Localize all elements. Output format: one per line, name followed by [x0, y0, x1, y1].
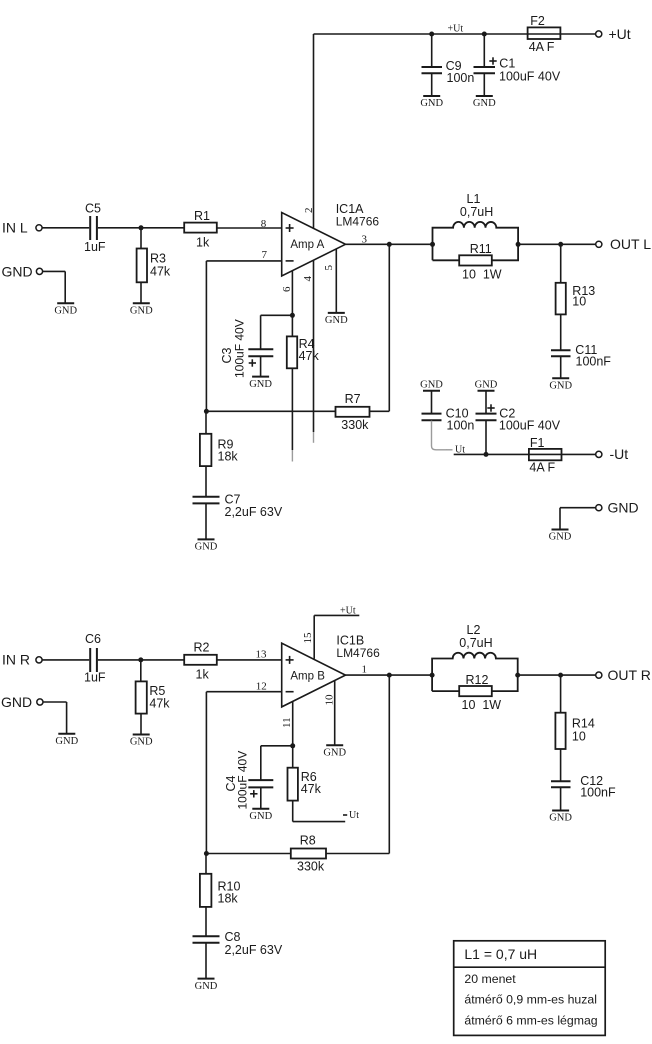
- wire IN L to C5: [42, 227, 89, 229]
- resistor R3: [137, 249, 171, 283]
- svg-text:6: 6: [281, 286, 293, 292]
- node B output feedback junction: [387, 673, 392, 678]
- wire R6 lower lead: [292, 801, 294, 822]
- capacitor C11: [551, 343, 611, 369]
- wire pin 6 down to R4: [291, 266, 293, 336]
- svg-text:10 1W: 10 1W: [462, 267, 502, 281]
- wire C3 to ground: [260, 357, 262, 377]
- node A output feedback junction: [387, 242, 392, 247]
- wire C4 to ground: [260, 788, 262, 809]
- wire C9 to ground: [431, 74, 433, 96]
- wire pin 2 from +Ut rail: [313, 34, 315, 228]
- svg-text:47k: 47k: [301, 782, 322, 796]
- svg-text:330k: 330k: [297, 860, 325, 874]
- node feedback node B: [204, 851, 209, 856]
- svg-text:R3: R3: [150, 252, 166, 266]
- wire GND right horizontal: [560, 507, 596, 509]
- wire -Ut rail right: [562, 453, 596, 455]
- svg-text:47k: 47k: [149, 697, 170, 711]
- wire R5 to ground: [140, 714, 142, 735]
- ground under R3: [130, 303, 153, 316]
- wire C3 top lead: [260, 315, 262, 349]
- svg-text:4A F: 4A F: [529, 461, 555, 475]
- capacitor C9: [422, 59, 475, 85]
- capacitor C4 (electrolytic): [224, 751, 273, 810]
- svg-text:100n: 100n: [447, 419, 475, 433]
- node rail C9 tap: [429, 32, 434, 37]
- ground above C2: [475, 380, 498, 391]
- ground under C7: [195, 539, 218, 552]
- wire node to R10: [205, 854, 207, 874]
- node B input junction: [138, 657, 143, 662]
- inductor L2 with parallel box: [432, 623, 518, 691]
- op-amp U1A triangle: [282, 213, 346, 277]
- svg-text:10: 10: [572, 730, 586, 744]
- wire R10 to C8: [205, 907, 207, 936]
- wire pin 11 down to R6: [292, 697, 294, 768]
- wire ground to C10: [431, 391, 433, 413]
- svg-text:C6: C6: [85, 632, 101, 646]
- capacitor C6: [84, 632, 106, 685]
- wire IN R to C6: [42, 659, 89, 661]
- node A input junction: [139, 225, 144, 230]
- svg-text:47k: 47k: [150, 265, 171, 279]
- svg-text:R8: R8: [300, 834, 316, 848]
- wire feedback riser B: [388, 675, 390, 853]
- svg-text:C5: C5: [85, 202, 101, 216]
- terminal IN R: [36, 657, 42, 663]
- wire R13 to C11: [560, 314, 562, 349]
- resistor R10: [200, 874, 241, 907]
- capacitor C1 (electrolytic): [474, 57, 561, 84]
- svg-text:GND: GND: [420, 98, 443, 109]
- svg-text:2,2uF 63V: 2,2uF 63V: [225, 943, 283, 957]
- svg-text:1uF: 1uF: [84, 671, 106, 685]
- terminal -Ut: [596, 451, 602, 457]
- wire feedback riser A: [388, 244, 390, 411]
- ground under C11: [549, 378, 572, 391]
- ground under C12: [549, 811, 572, 824]
- capacitor C2 (electrolytic): [476, 404, 561, 432]
- node -Ut rail C2 tap: [484, 452, 489, 457]
- op-amp U1B reference IC1B LM4766: [336, 634, 380, 661]
- wire op-amp A output: [346, 243, 433, 245]
- wire C2 to -Ut rail: [485, 421, 487, 455]
- svg-text:C1: C1: [499, 57, 515, 71]
- svg-text:R14: R14: [572, 717, 595, 731]
- svg-text:Ut: Ut: [349, 810, 359, 821]
- capacitor C10: [422, 407, 475, 433]
- wire pin 5 to ground: [335, 249, 337, 313]
- ground under C4: [249, 809, 272, 822]
- svg-text:GND: GND: [549, 813, 572, 824]
- terminal OUT R: [596, 672, 602, 678]
- capacitor C3 (electrolytic): [220, 319, 273, 378]
- wire -Ut rail left: [454, 453, 529, 455]
- svg-text:átmérő 6 mm-es légmag: átmérő 6 mm-es légmag: [464, 1014, 597, 1028]
- svg-text:F2: F2: [530, 14, 545, 28]
- svg-text:R7: R7: [345, 392, 361, 406]
- node OUT L zobel tap: [558, 242, 563, 247]
- ground under C3: [249, 377, 272, 390]
- node L2 left node: [430, 673, 435, 678]
- wire R4 lower lead: [291, 368, 293, 450]
- resistor R4: [287, 336, 320, 368]
- fuse F1: [529, 436, 562, 475]
- wire inverting feedback drop: [205, 261, 207, 411]
- svg-text:GND: GND: [608, 500, 639, 516]
- node pin6 C3 node: [290, 313, 295, 318]
- svg-text:20 menet: 20 menet: [464, 972, 516, 986]
- svg-text:2,2uF 63V: 2,2uF 63V: [225, 505, 283, 519]
- ground under C1: [473, 96, 496, 109]
- resistor R9: [200, 434, 239, 466]
- wire feedback horizontal A: [206, 410, 335, 412]
- terminal GND right: [596, 505, 602, 511]
- wire R4 faded end: [291, 450, 293, 462]
- svg-text:GND: GND: [323, 748, 346, 759]
- wire R3 to ground: [140, 282, 142, 303]
- svg-text:1: 1: [362, 664, 368, 676]
- node L1 left node: [430, 242, 435, 247]
- svg-text:+Ut: +Ut: [609, 26, 631, 42]
- svg-text:F1: F1: [530, 436, 545, 450]
- svg-text:15: 15: [302, 632, 314, 644]
- svg-text:5: 5: [323, 265, 335, 271]
- svg-text:2: 2: [303, 208, 315, 214]
- svg-text:100uF 40V: 100uF 40V: [236, 751, 250, 810]
- wire R8 right lead: [326, 853, 389, 855]
- svg-text:100n: 100n: [447, 71, 475, 85]
- svg-text:GND: GND: [249, 811, 272, 822]
- node pin11 C4 node: [290, 743, 295, 748]
- svg-text:10: 10: [324, 694, 336, 706]
- wire pin 15 to +Ut: [314, 614, 359, 616]
- svg-text:330k: 330k: [341, 418, 369, 432]
- inductor L1 with parallel box: [433, 192, 519, 260]
- wire R14 to C12: [560, 749, 562, 781]
- svg-text:4A F: 4A F: [529, 40, 555, 54]
- wire C10 faded lead to -Ut rail: [432, 421, 448, 450]
- resistor R14: [555, 713, 594, 749]
- wire node to R9: [205, 411, 207, 434]
- svg-text:100uF 40V: 100uF 40V: [499, 70, 561, 84]
- wire C3 top link: [261, 314, 293, 316]
- capacitor C7: [193, 493, 283, 520]
- wire pin 12 horizontal: [206, 691, 281, 693]
- svg-text:100nF: 100nF: [576, 355, 612, 369]
- wire pin 4 down: [313, 260, 315, 432]
- svg-text:R12: R12: [466, 673, 489, 687]
- svg-text:L1 = 0,7 uH: L1 = 0,7 uH: [464, 946, 537, 962]
- svg-text:IN L: IN L: [2, 220, 28, 236]
- svg-text:GND: GND: [549, 381, 572, 392]
- svg-text:GND: GND: [130, 305, 153, 316]
- ground under R5: [130, 735, 153, 748]
- wire C4 top lead: [260, 746, 262, 780]
- wire R6 to -Ut: [293, 821, 346, 823]
- wire +Ut rail left: [314, 33, 528, 35]
- resistor R6: [288, 768, 322, 801]
- svg-text:Amp A: Amp A: [290, 239, 324, 251]
- node feedback node A: [204, 409, 209, 414]
- node OUT R zobel tap: [558, 673, 563, 678]
- node L1 right node: [516, 242, 521, 247]
- net label -Ut at R6: [343, 810, 359, 821]
- svg-text:18k: 18k: [218, 450, 239, 464]
- ground under pin 5: [325, 313, 348, 326]
- wire tap to R13: [560, 244, 562, 282]
- note box L1 winding details: [454, 941, 606, 1036]
- svg-text:4: 4: [302, 276, 314, 282]
- svg-text:LM4766: LM4766: [336, 646, 380, 660]
- svg-text:0,7uH: 0,7uH: [460, 205, 493, 219]
- wire rail to C9: [431, 34, 433, 66]
- svg-text:7: 7: [262, 249, 268, 261]
- svg-text:GND: GND: [549, 532, 572, 543]
- svg-text:GND: GND: [325, 315, 348, 326]
- wire filter to OUT L: [518, 243, 596, 245]
- svg-text:18k: 18k: [218, 892, 239, 906]
- svg-text:0,7uH: 0,7uH: [459, 636, 492, 650]
- svg-text:OUT L: OUT L: [610, 236, 651, 252]
- op-amp U1B triangle: [282, 643, 346, 707]
- wire junction to R3: [140, 228, 142, 249]
- wire GND R terminal horizontal: [43, 701, 67, 703]
- ground under pin 10: [323, 745, 346, 758]
- wire GND L terminal horizontal: [43, 270, 66, 272]
- wire R1 to op-amp pin 8: [217, 227, 282, 229]
- terminal IN L: [36, 225, 42, 231]
- wire R9 to C7: [205, 466, 207, 496]
- svg-text:1k: 1k: [196, 668, 210, 682]
- wire C4 top link: [261, 745, 293, 747]
- wire pin 4 faded end: [313, 432, 315, 443]
- wire R7 right lead: [370, 410, 390, 412]
- wire +Ut rail right: [560, 33, 595, 35]
- resistor R1: [184, 209, 217, 250]
- terminal GND L: [36, 268, 42, 274]
- wire C1 to ground: [483, 74, 485, 96]
- wire pin 10 to ground: [334, 680, 336, 745]
- wire C6 to R2: [98, 659, 184, 661]
- svg-text:átmérő 0,9 mm-es huzal: átmérő 0,9 mm-es huzal: [464, 993, 597, 1007]
- svg-text:C8: C8: [225, 930, 241, 944]
- svg-text:100nF: 100nF: [580, 786, 616, 800]
- wire filter to OUT R: [518, 674, 596, 676]
- wire C5 to R1: [98, 227, 184, 229]
- wire C11 to ground: [560, 357, 562, 379]
- svg-text:GND: GND: [54, 305, 77, 316]
- wire C7 to ground: [205, 504, 207, 540]
- wire junction to R5: [140, 660, 142, 682]
- svg-text:LM4766: LM4766: [336, 215, 380, 229]
- wire pin 7 horizontal: [206, 260, 281, 262]
- terminal OUT L: [596, 241, 602, 247]
- svg-text:GND: GND: [2, 264, 33, 280]
- svg-text:-Ut: -Ut: [610, 446, 629, 462]
- wire rail to C1: [483, 34, 485, 66]
- ground above C10: [420, 380, 443, 391]
- svg-text:GND: GND: [195, 981, 218, 992]
- svg-text:GND: GND: [195, 542, 218, 553]
- svg-text:12: 12: [256, 681, 267, 693]
- svg-text:+Ut: +Ut: [340, 606, 356, 617]
- wire ground to C2: [485, 391, 487, 413]
- wire inverting feedback drop B: [205, 692, 207, 854]
- resistor R7: [336, 392, 370, 432]
- fuse F2: [528, 14, 561, 54]
- svg-text:GND: GND: [475, 380, 498, 391]
- svg-text:L2: L2: [467, 623, 481, 637]
- wire GND R terminal drop: [66, 702, 68, 734]
- wire GND right drop: [559, 508, 561, 530]
- ground under GND L terminal: [54, 303, 77, 316]
- capacitor C8: [193, 930, 283, 957]
- wire feedback horizontal B: [206, 853, 290, 855]
- svg-text:8: 8: [261, 218, 267, 230]
- node L2 right node: [515, 673, 520, 678]
- resistor R12: [459, 673, 501, 712]
- svg-text:GND: GND: [473, 98, 496, 109]
- svg-text:100uF 40V: 100uF 40V: [233, 319, 247, 378]
- resistor R2: [184, 641, 217, 682]
- svg-text:R2: R2: [194, 641, 210, 655]
- node rail C1 tap: [482, 32, 487, 37]
- wire op-amp B output: [346, 674, 433, 676]
- terminal GND R: [37, 699, 43, 705]
- svg-text:47k: 47k: [299, 349, 320, 363]
- wire tap to R14: [560, 675, 562, 713]
- net label Ut on -Ut rail: [447, 445, 466, 456]
- wire C8 to ground: [205, 943, 207, 978]
- svg-text:GND: GND: [1, 694, 32, 710]
- svg-text:10 1W: 10 1W: [462, 698, 502, 712]
- capacitor C5: [84, 202, 106, 255]
- ground under C8: [195, 979, 218, 992]
- svg-text:GND: GND: [420, 380, 443, 391]
- svg-text:1uF: 1uF: [84, 240, 106, 254]
- wire C12 to ground: [560, 788, 562, 811]
- op-amp U1A reference IC1A LM4766: [336, 202, 380, 229]
- svg-text:1k: 1k: [196, 236, 210, 250]
- svg-text:11: 11: [281, 717, 293, 728]
- svg-text:R1: R1: [194, 209, 210, 223]
- ground under C9: [420, 96, 443, 109]
- capacitor C12: [551, 774, 616, 800]
- svg-text:IN R: IN R: [2, 652, 30, 668]
- svg-text:GND: GND: [55, 736, 78, 747]
- resistor R11: [459, 242, 502, 281]
- terminal +Ut: [596, 31, 602, 37]
- wire pin 15 up: [313, 615, 315, 658]
- resistor R5: [136, 681, 171, 713]
- resistor R13: [556, 283, 596, 315]
- svg-text:R11: R11: [470, 242, 492, 256]
- svg-text:100uF 40V: 100uF 40V: [499, 419, 561, 433]
- ground under GND right terminal: [549, 530, 572, 543]
- wire GND L terminal drop: [64, 271, 66, 303]
- resistor R8: [291, 834, 326, 874]
- ground under GND R terminal: [55, 734, 78, 747]
- svg-text:GND: GND: [249, 379, 272, 390]
- svg-text:10: 10: [572, 295, 586, 309]
- svg-text:OUT R: OUT R: [608, 667, 651, 683]
- svg-text:Amp B: Amp B: [290, 670, 325, 682]
- svg-text:GND: GND: [130, 737, 153, 748]
- wire R2 to op-amp pin 13: [217, 659, 282, 661]
- svg-text:13: 13: [256, 649, 268, 661]
- svg-text:+Ut: +Ut: [448, 24, 464, 35]
